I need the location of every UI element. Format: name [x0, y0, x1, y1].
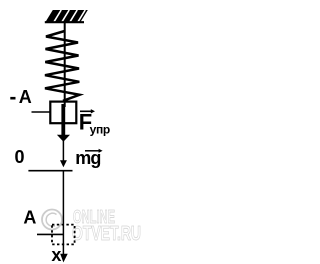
- level line 0: [28, 170, 72, 172]
- axis lower (x axis): [62, 171, 64, 255]
- watermark logo circle: [42, 210, 62, 230]
- label F vector arrow: [80, 110, 93, 112]
- svg-text:A: A: [19, 87, 32, 107]
- axis upper (through spring): [64, 22, 66, 107]
- label mg vector arrow: [85, 150, 100, 152]
- mass box: [50, 102, 76, 124]
- svg-text:OTVET.RU: OTVET.RU: [72, 223, 141, 245]
- svg-text:mg: mg: [75, 148, 100, 168]
- axis mid with mg arrowhead: [62, 141, 64, 161]
- ceiling line: [45, 21, 84, 23]
- svg-text:x: x: [51, 245, 61, 264]
- label -A dash: [10, 97, 15, 100]
- spring: [45, 31, 80, 101]
- force arrow Fupr (thick down arrow): [61, 104, 65, 135]
- ceiling hatch: [45, 10, 88, 22]
- dashed box (position A): [52, 225, 75, 245]
- x axis arrowhead: [60, 254, 67, 263]
- svg-text:упр: упр: [90, 123, 110, 137]
- svg-text:A: A: [23, 207, 36, 227]
- level line -A: [32, 111, 51, 113]
- svg-text:0: 0: [15, 147, 25, 167]
- level line A: [37, 233, 64, 235]
